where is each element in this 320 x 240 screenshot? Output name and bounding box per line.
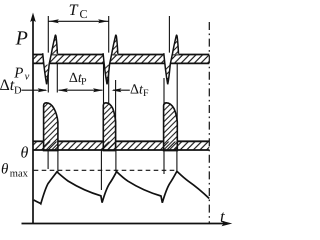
svg-text:P: P [13, 65, 23, 81]
svg-text:P: P [81, 76, 87, 87]
delta t_D arrow [22, 88, 48, 92]
theta band hatched [33, 141, 209, 150]
svg-text:Δt: Δt [0, 77, 15, 94]
svg-text:P: P [15, 27, 28, 49]
theta area guide line c1 [163, 150, 165, 174]
theta_max dashed line [34, 169, 177, 171]
svg-text:F: F [143, 88, 149, 99]
T_C dimension arrow [48, 19, 108, 23]
theta area guide line a2 (to peak1) [57, 150, 59, 172]
P axis [30, 13, 36, 224]
t axis [22, 221, 233, 227]
guide line dome2 right ext [115, 80, 117, 150]
theta area guide line b2 (to peak2) [115, 150, 117, 172]
dome pulse 2 [103, 103, 115, 151]
switching spike S2 [103, 35, 118, 84]
theta area guide line a1 [47, 150, 49, 169]
guide line dome3 right ext [176, 64, 178, 150]
svg-text:v: v [25, 72, 30, 83]
svg-text:θ: θ [1, 161, 9, 177]
power band P_v hatched [33, 55, 209, 64]
svg-text:Δt: Δt [130, 82, 144, 97]
dash-dot boundary line [208, 22, 210, 224]
delta t_F arrow [112, 88, 130, 92]
svg-text:T: T [69, 2, 79, 19]
dome pulse 3 [164, 103, 178, 151]
switching spike S1 [43, 35, 58, 84]
svg-text:max: max [10, 169, 29, 180]
switching spike S3 [164, 35, 179, 84]
dome pulse 1 [44, 103, 58, 151]
guide line dome2 left ext [103, 64, 105, 104]
guide line pulse 1 rise end [56, 63, 58, 93]
svg-text:D: D [14, 86, 22, 97]
svg-text:C: C [80, 7, 88, 21]
theta curve [34, 171, 210, 204]
theta area guide line b1 [100, 150, 102, 190]
theta area guide line c2 (to peak3) [176, 150, 178, 171]
delta t_P dimension arrow [58, 88, 103, 92]
svg-text:θ: θ [21, 144, 29, 161]
guide line T_C right (pulse 2 start) [108, 16, 110, 106]
guide line T_C left (pulse 1 start) [47, 16, 49, 93]
guide line dome3 left ext [163, 78, 165, 104]
guide line pulse 3 start [168, 16, 170, 55]
